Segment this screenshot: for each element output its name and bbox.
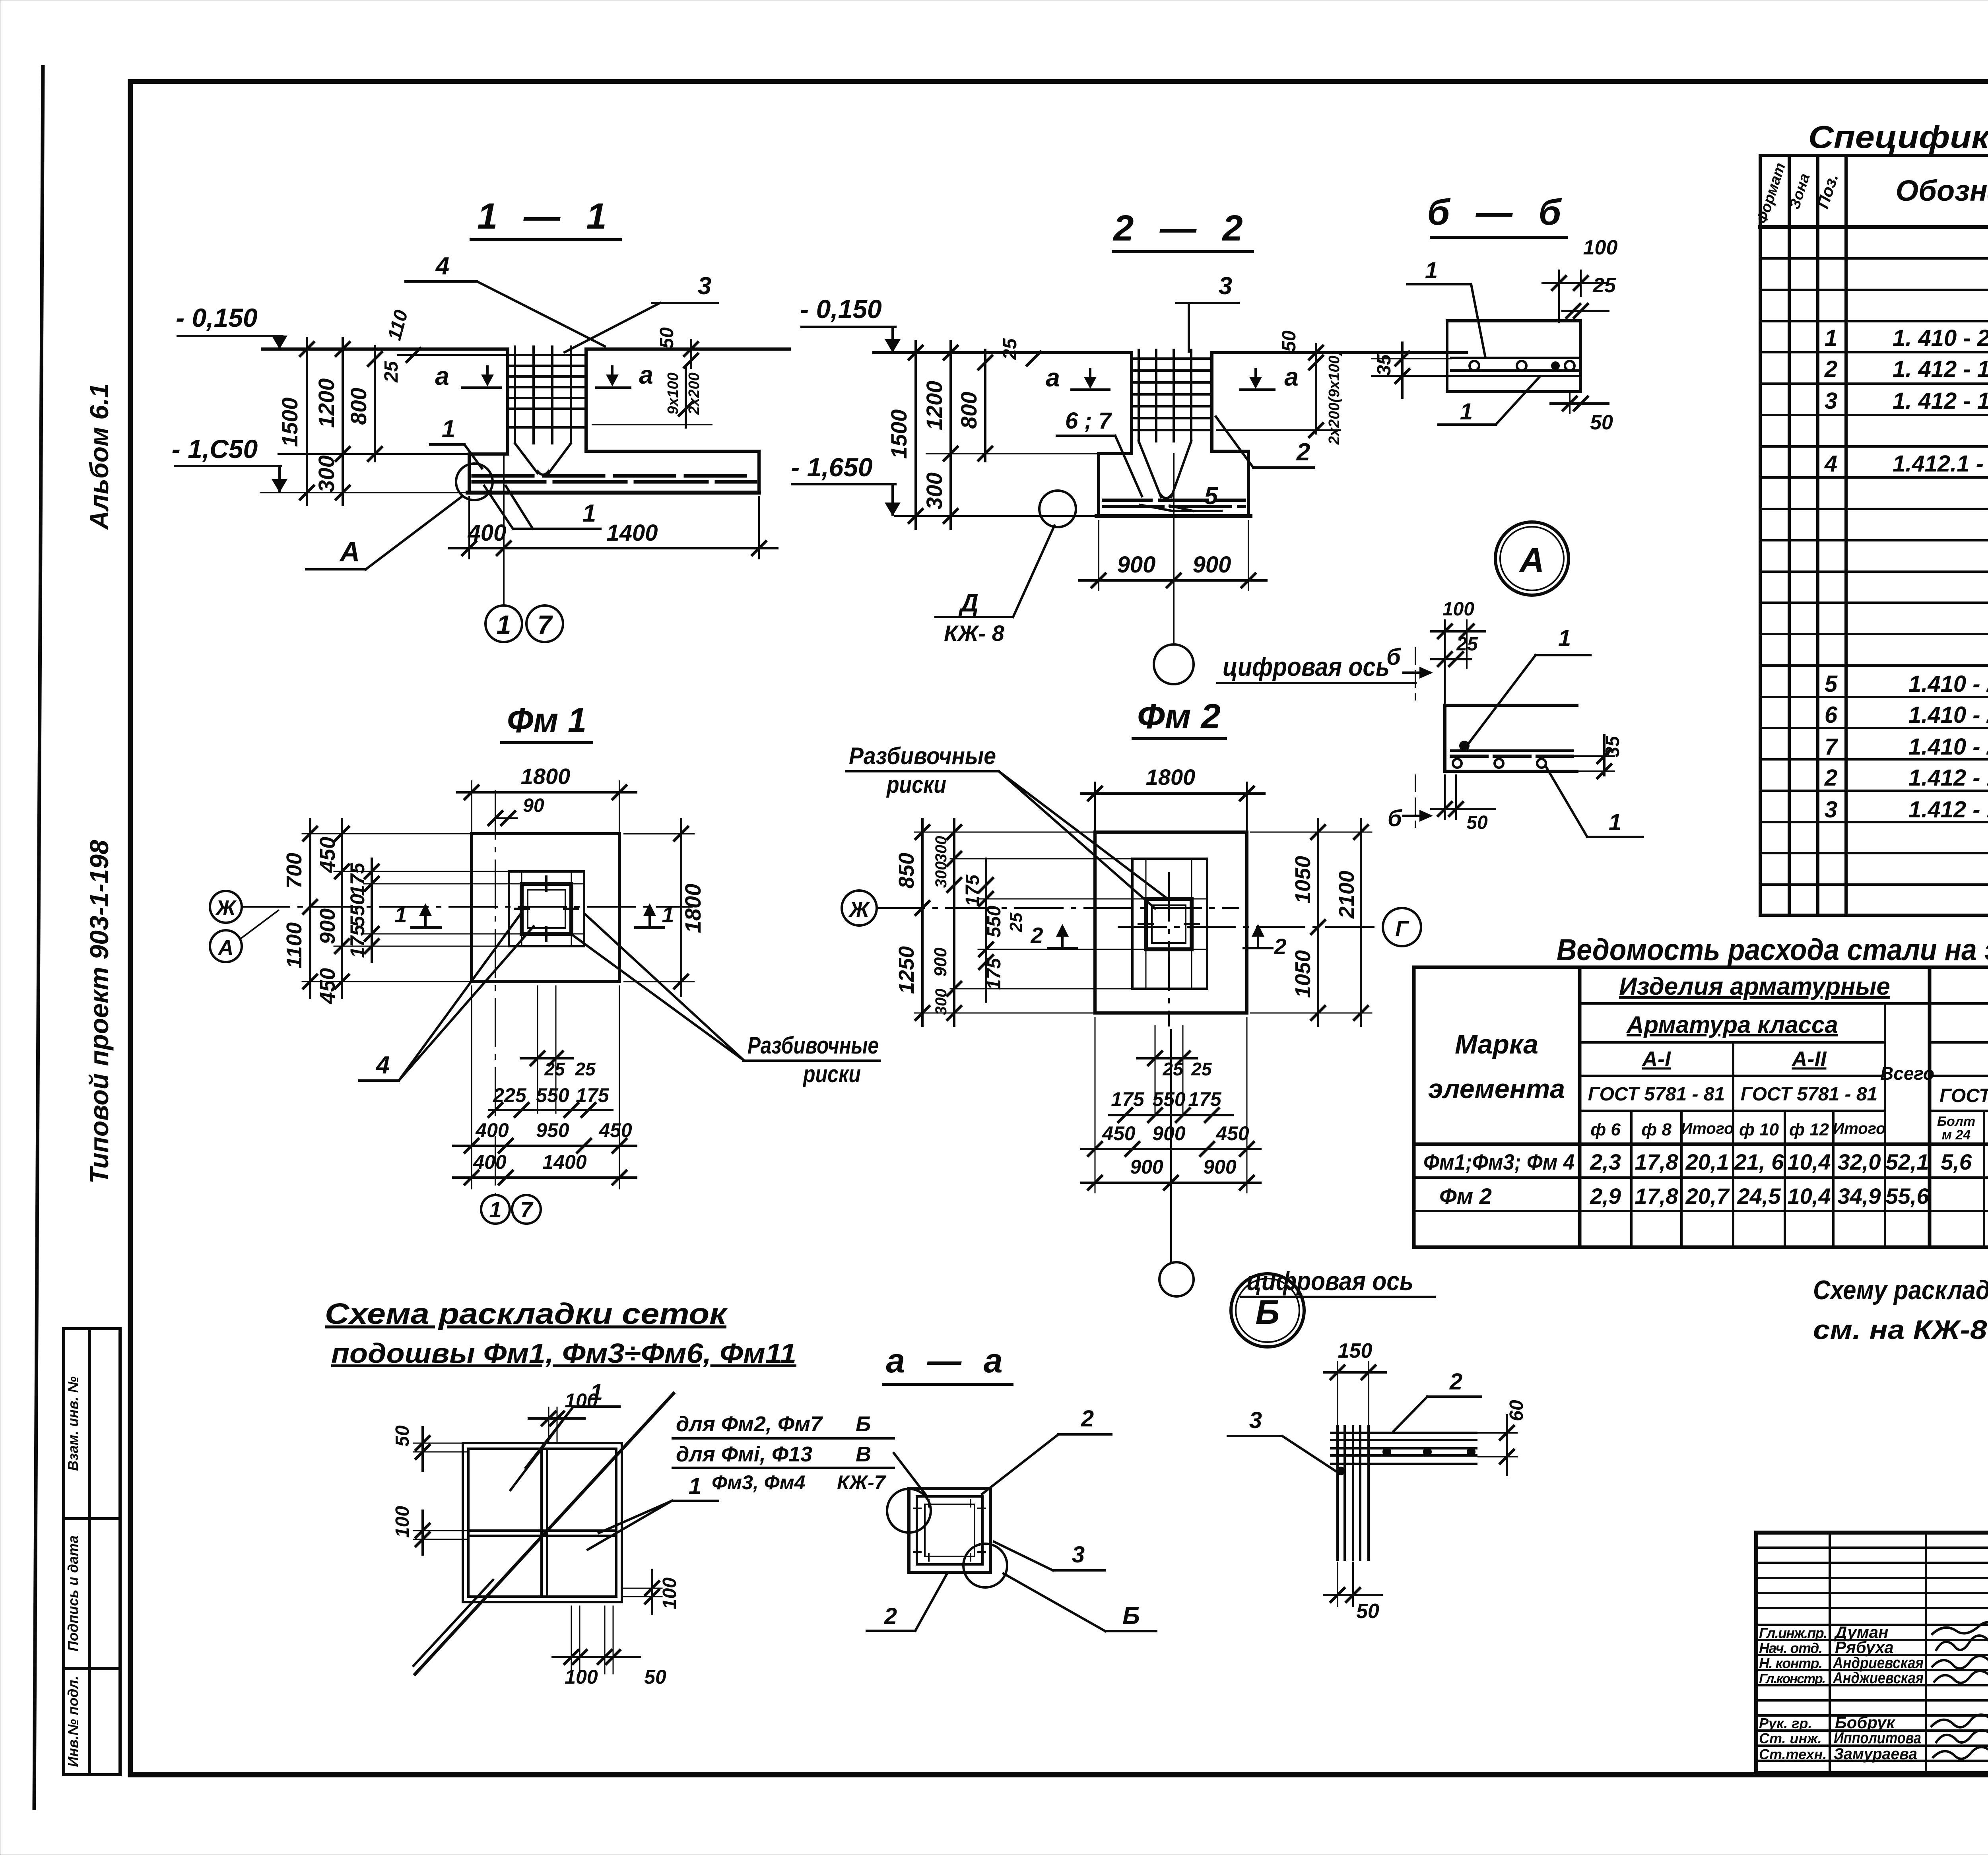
svg-text:Бобрук: Бобрук <box>1835 1713 1895 1732</box>
left dim chain 1200 300 <box>949 341 952 529</box>
svg-text:1 — 1: 1 — 1 <box>477 196 614 237</box>
svg-text:300: 300 <box>314 455 339 492</box>
spec table grid <box>1760 155 1988 915</box>
bottom dim chain 400/1400 <box>453 1176 636 1179</box>
right tie spacing dim <box>685 368 687 427</box>
svg-text:24,5: 24,5 <box>1737 1184 1781 1209</box>
svg-text:175: 175 <box>346 862 369 896</box>
svg-text:1200: 1200 <box>922 381 947 431</box>
svg-text:б: б <box>1386 644 1402 670</box>
svg-text:КЖ- 8: КЖ- 8 <box>944 621 1005 646</box>
svg-text:Б: Б <box>856 1412 871 1436</box>
svg-text:1800: 1800 <box>1146 765 1196 790</box>
detail A cut line b <box>1415 648 1416 700</box>
axis vertical 1/7 <box>495 791 496 1195</box>
footing bottom mesh <box>473 474 755 478</box>
svg-text:1: 1 <box>394 902 407 927</box>
svg-text:1.410 - 2 вып. 1: 1.410 - 2 вып. 1 <box>1908 734 1988 760</box>
bottom extension lines Fm2 <box>1095 1018 1096 1193</box>
svg-text:Б: Б <box>1122 1602 1140 1630</box>
svg-text:цифровая ось: цифровая ось <box>1246 1266 1413 1296</box>
svg-text:ф 12: ф 12 <box>1789 1120 1829 1139</box>
svg-text:50: 50 <box>656 327 678 349</box>
svg-text:Подпись и дата: Подпись и дата <box>65 1535 81 1651</box>
stem side lines across pedestal <box>509 883 584 885</box>
left dim chain 300/300 <box>953 819 955 1026</box>
steel table data row 2 <box>1439 1184 1988 1209</box>
svg-text:1500: 1500 <box>277 398 302 447</box>
svg-text:Типовой проект 903-1-198: Типовой проект 903-1-198 <box>84 840 114 1184</box>
detail A dim 25 <box>1431 658 1471 660</box>
svg-text:Взам. инв. №: Взам. инв. № <box>65 1376 81 1471</box>
svg-text:50: 50 <box>1356 1600 1379 1623</box>
dim 25 25 Fm2 <box>1137 1057 1197 1059</box>
svg-text:ф 8: ф 8 <box>1641 1120 1672 1139</box>
svg-text:Фм1;Фм3; Фм 4: Фм1;Фм3; Фм 4 <box>1423 1149 1574 1174</box>
svg-text:2: 2 <box>1030 923 1043 948</box>
svg-text:для Фм2, Фм7: для Фм2, Фм7 <box>676 1412 823 1436</box>
dim 100 top <box>1543 282 1606 284</box>
slab mesh <box>1451 357 1578 359</box>
svg-text:б — б: б — б <box>1427 192 1569 233</box>
svg-text:300: 300 <box>932 836 950 863</box>
sheet edge line <box>34 67 43 1808</box>
pedestal rect <box>1132 859 1207 989</box>
svg-text:17,8: 17,8 <box>1635 1184 1679 1209</box>
detail circle A on footing <box>456 464 493 500</box>
svg-text:ф 6: ф 6 <box>1590 1120 1621 1139</box>
ground level line <box>874 351 1132 354</box>
a-a corner circles <box>887 1489 931 1533</box>
svg-text:1: 1 <box>689 1473 701 1499</box>
svg-text:2: 2 <box>1274 934 1286 959</box>
svg-text:400: 400 <box>468 520 507 546</box>
svg-text:2,3: 2,3 <box>1590 1149 1621 1174</box>
svg-text:25: 25 <box>1006 912 1026 932</box>
dim 35 left <box>1401 343 1404 398</box>
svg-text:Н. контр.: Н. контр. <box>1759 1655 1823 1671</box>
svg-text:300: 300 <box>932 989 950 1015</box>
title block signatures scribbles <box>1932 1622 1988 1759</box>
svg-text:Схема раскладки сеток: Схема раскладки сеток <box>325 1297 728 1330</box>
DETAIL-A <box>1386 522 1643 837</box>
axis line <box>1173 454 1175 644</box>
svg-text:800: 800 <box>956 392 981 429</box>
svg-text:5,6: 5,6 <box>1941 1149 1972 1174</box>
axis Zh horizontal <box>242 906 692 908</box>
svg-text:90: 90 <box>523 795 544 816</box>
svg-text:1. 410 - 2 вып. 1: 1. 410 - 2 вып. 1 <box>1893 325 1988 351</box>
svg-text:550: 550 <box>346 894 369 927</box>
svg-text:3: 3 <box>1825 797 1837 823</box>
svg-text:Фм 1: Фм 1 <box>507 700 586 740</box>
dim 25 25 <box>521 1057 573 1059</box>
svg-text:А: А <box>1519 541 1544 579</box>
svg-text:550: 550 <box>984 906 1005 937</box>
detail A dim 100 <box>1431 630 1485 633</box>
svg-text:950: 950 <box>536 1119 569 1141</box>
svg-text:3: 3 <box>1249 1407 1262 1433</box>
svg-text:а: а <box>435 362 449 390</box>
svg-text:Г: Г <box>1395 917 1409 941</box>
stem center line vertical <box>1168 873 1170 1026</box>
svg-text:450: 450 <box>1102 1122 1136 1145</box>
a-a nested squares <box>909 1488 990 1572</box>
svg-text:1: 1 <box>1460 399 1473 425</box>
schema dim 50 left <box>421 1427 424 1471</box>
svg-text:2: 2 <box>1824 765 1837 791</box>
svg-text:б: б <box>1388 805 1403 831</box>
DETAIL-B <box>1228 1274 1527 1623</box>
svg-text:225: 225 <box>493 1084 527 1106</box>
schema dim 100 left <box>421 1511 424 1554</box>
detail A dim 50 <box>1431 808 1495 810</box>
svg-text:Альбом 6.1: Альбом 6.1 <box>84 383 114 530</box>
title block outer <box>1756 1533 1988 1773</box>
svg-text:50: 50 <box>1590 411 1613 434</box>
svg-text:Арматура класса: Арматура класса <box>1626 1011 1838 1038</box>
detail A dim 35 <box>1603 735 1606 775</box>
detail A circle <box>1495 522 1569 595</box>
left dim chain 850/1250 <box>921 819 924 1026</box>
svg-text:Гл.инж.пр.: Гл.инж.пр. <box>1759 1625 1827 1641</box>
svg-text:10,4: 10,4 <box>1788 1184 1831 1209</box>
svg-text:А: А <box>217 936 234 960</box>
spec table rows <box>1824 231 1988 916</box>
svg-text:50: 50 <box>1279 330 1300 352</box>
svg-text:- 1,650: - 1,650 <box>791 452 873 482</box>
svg-text:1: 1 <box>1609 809 1621 835</box>
axis circle Zh <box>210 891 242 923</box>
left dim chain 700/1100 <box>309 819 311 998</box>
bottom extension lines <box>471 986 472 1189</box>
svg-text:50: 50 <box>644 1666 666 1688</box>
svg-text:- 1,С50: - 1,С50 <box>172 434 258 464</box>
top dim 1800 Fm2 <box>1081 792 1264 795</box>
svg-text:1.412.1 - 4: 1.412.1 - 4 <box>1893 451 1988 477</box>
stem square with plate <box>522 884 571 934</box>
detail B dim 150 <box>1324 1371 1386 1374</box>
svg-text:300: 300 <box>932 862 950 888</box>
axis circle A <box>210 930 242 962</box>
svg-text:м 24: м 24 <box>1942 1127 1971 1143</box>
svg-text:900: 900 <box>1117 552 1156 578</box>
svg-text:цифровая ось: цифровая ось <box>1223 652 1390 681</box>
right dim 2100 <box>1360 819 1362 1026</box>
footing outer square 1800x1800 <box>472 834 619 982</box>
svg-text:52,1: 52,1 <box>1886 1149 1929 1174</box>
svg-text:5: 5 <box>1204 482 1219 510</box>
slab outline <box>1447 319 1580 322</box>
svg-text:175: 175 <box>984 958 1005 990</box>
mesh inner dividers <box>540 1449 543 1597</box>
svg-text:100: 100 <box>659 1578 680 1609</box>
svg-text:Итого: Итого <box>1833 1120 1885 1137</box>
svg-text:7: 7 <box>1825 734 1839 760</box>
svg-text:1050: 1050 <box>1291 950 1315 998</box>
svg-text:6: 6 <box>1825 702 1838 728</box>
stem square with plate <box>1146 899 1192 949</box>
svg-text:1: 1 <box>442 415 455 443</box>
svg-text:ГОСТ 5781 - 81: ГОСТ 5781 - 81 <box>1741 1084 1877 1105</box>
svg-text:Фм3, Фм4: Фм3, Фм4 <box>712 1471 805 1494</box>
bottom dim chain 225/550/175 <box>489 1109 612 1111</box>
detail A slab outline <box>1445 704 1577 707</box>
svg-text:Ж: Ж <box>215 896 237 920</box>
right tie spacing dim <box>1315 370 1317 433</box>
detail circle D on footing <box>1039 491 1076 527</box>
svg-text:Гл.констр.: Гл.констр. <box>1759 1671 1826 1686</box>
svg-text:1.412 - 1/77 вып. 3: 1.412 - 1/77 вып. 3 <box>1908 765 1988 791</box>
svg-text:7: 7 <box>538 610 553 639</box>
svg-text:для Фмi, Ф13: для Фмi, Ф13 <box>676 1442 812 1466</box>
column stem outline <box>506 349 509 454</box>
svg-text:2,9: 2,9 <box>1590 1184 1621 1209</box>
svg-text:А-II: А-II <box>1791 1047 1827 1071</box>
svg-text:ф 10: ф 10 <box>1739 1120 1779 1139</box>
svg-text:А-I: А-I <box>1641 1047 1671 1071</box>
svg-text:175: 175 <box>962 874 983 906</box>
bottom dim chain 175/550/175 Fm2 <box>1109 1114 1233 1116</box>
riska extension lines bottom <box>537 986 538 1113</box>
svg-text:25: 25 <box>544 1059 565 1079</box>
svg-text:1. 412 - 1/77 вып. 3: 1. 412 - 1/77 вып. 3 <box>1893 388 1988 414</box>
svg-text:900: 900 <box>1130 1156 1163 1178</box>
stem side lines across pedestal <box>1132 898 1207 900</box>
title block signature names <box>1759 1623 1924 1763</box>
svg-text:175: 175 <box>1188 1088 1222 1110</box>
left dim chain 175/550/175 Fm2 <box>985 859 987 1002</box>
corner mesh horizontal bars <box>1331 1433 1476 1464</box>
svg-text:Разбивочные: Разбивочные <box>747 1032 879 1059</box>
svg-text:1.410 - 2 вып. 1: 1.410 - 2 вып. 1 <box>1908 671 1988 697</box>
svg-text:900: 900 <box>1193 552 1231 578</box>
pedestal square 900x900 <box>509 871 584 946</box>
svg-text:1: 1 <box>1425 258 1438 283</box>
svg-text:175: 175 <box>1111 1088 1145 1110</box>
axis circle 1 <box>481 1195 510 1224</box>
steel table grid <box>1414 967 1988 1247</box>
steel table data row 1 <box>1423 1149 1988 1174</box>
title block signature grid <box>1756 1533 1988 1773</box>
axis circle 1 <box>485 605 522 642</box>
svg-text:2х200: 2х200 <box>686 373 703 415</box>
svg-text:КЖ-7: КЖ-7 <box>837 1471 886 1494</box>
right dim 1800 <box>680 819 682 996</box>
svg-text:400: 400 <box>475 1119 509 1141</box>
svg-text:3: 3 <box>1072 1542 1085 1568</box>
svg-text:2: 2 <box>1449 1369 1462 1395</box>
svg-text:1.410 - 2 вып. 1: 1.410 - 2 вып. 1 <box>1908 702 1988 728</box>
riska tick marks Fm2 <box>1139 892 1199 956</box>
schema dim 50 bottom <box>592 1656 640 1658</box>
svg-text:175: 175 <box>346 924 369 958</box>
svg-text:2: 2 <box>1824 356 1837 382</box>
svg-text:700: 700 <box>282 853 306 889</box>
svg-text:450: 450 <box>316 968 340 1004</box>
svg-text:35: 35 <box>1602 735 1623 757</box>
svg-text:1: 1 <box>662 902 674 927</box>
svg-text:Инв.№ подл.: Инв.№ подл. <box>65 1676 81 1767</box>
stem rebar ties <box>510 355 584 427</box>
bottom dim line 900 900 <box>1079 579 1266 582</box>
svg-text:Всего: Всего <box>1880 1063 1934 1084</box>
mesh bar circles <box>1470 361 1479 371</box>
svg-text:Обозначение: Обозначение <box>1896 174 1988 207</box>
left margin stamp table <box>64 1329 120 1775</box>
svg-text:2100: 2100 <box>1335 871 1359 919</box>
svg-text:1. 412 - 1/77 вып. 3: 1. 412 - 1/77 вып. 3 <box>1893 356 1988 382</box>
left dim chain 800 <box>374 346 376 461</box>
detail B circle <box>1231 1274 1304 1347</box>
svg-text:а: а <box>639 361 653 389</box>
svg-text:Рябуха: Рябуха <box>1835 1638 1894 1657</box>
svg-text:Разбивочные: Разбивочные <box>849 743 996 769</box>
svg-text:1800: 1800 <box>680 884 705 933</box>
svg-text:а — а: а — а <box>886 1342 1009 1380</box>
svg-text:2 — 2: 2 — 2 <box>1112 208 1250 248</box>
svg-text:Итого: Итого <box>1681 1120 1734 1137</box>
svg-text:450: 450 <box>316 837 340 873</box>
svg-text:В: В <box>856 1442 871 1466</box>
svg-text:см. на КЖ-8 .: см. на КЖ-8 . <box>1813 1315 1988 1345</box>
svg-text:А: А <box>339 536 360 567</box>
svg-text:150: 150 <box>1338 1339 1373 1362</box>
detail B dim 60 <box>1506 1415 1508 1475</box>
svg-text:2: 2 <box>1081 1406 1094 1432</box>
svg-text:Марка: Марка <box>1455 1029 1538 1059</box>
svg-text:а: а <box>1284 363 1299 391</box>
svg-text:25: 25 <box>1162 1059 1184 1079</box>
dim 25 <box>1563 310 1608 312</box>
dim 50 bottom <box>1551 402 1608 405</box>
a-a bar end ticks <box>914 1500 985 1561</box>
bottom dim chain 400/950/450 <box>453 1145 636 1147</box>
svg-text:175: 175 <box>576 1084 610 1106</box>
svg-text:550: 550 <box>536 1084 569 1106</box>
stem rebar cage bars <box>1139 350 1191 498</box>
svg-text:3: 3 <box>1825 388 1837 414</box>
svg-text:ГОСТ 2590-71 *: ГОСТ 2590-71 * <box>1939 1085 1988 1106</box>
svg-text:20,1: 20,1 <box>1685 1149 1729 1174</box>
axis circle Zh Fm2 <box>842 891 877 926</box>
bottom dim chain 450/900/450 Fm2 <box>1081 1148 1260 1150</box>
svg-text:100: 100 <box>1583 236 1618 259</box>
footing outline <box>469 452 508 456</box>
svg-text:5: 5 <box>1825 671 1838 697</box>
svg-text:100: 100 <box>565 1666 598 1688</box>
footing outer rect 1800x2100 <box>1095 832 1247 1013</box>
stem rebar cage bars <box>515 347 571 475</box>
stem rebar ties <box>1134 359 1209 430</box>
left dim chain 175/550/175 <box>371 859 373 962</box>
svg-text:- 0,150: - 0,150 <box>176 303 258 332</box>
left dim chain 450/900/450 <box>341 819 343 998</box>
svg-text:риски: риски <box>886 771 946 798</box>
column stem outline <box>1130 353 1133 454</box>
svg-text:50: 50 <box>392 1425 413 1447</box>
svg-text:900: 900 <box>1152 1122 1186 1145</box>
bottom dim line 400 1400 <box>449 547 777 549</box>
svg-text:Изделия арматурные: Изделия арматурные <box>1619 973 1890 1000</box>
schema dim 100 top <box>529 1417 584 1420</box>
riska tick marks <box>515 877 578 941</box>
svg-text:1: 1 <box>1825 325 1837 351</box>
svg-text:Ипполитова: Ипполитова <box>1834 1729 1921 1747</box>
svg-text:800: 800 <box>346 388 371 425</box>
axis circle bottom Fm2 <box>1159 1262 1194 1296</box>
left dim chain 1500 <box>306 338 308 505</box>
svg-text:21, 6: 21, 6 <box>1734 1149 1784 1174</box>
svg-text:900: 900 <box>316 908 340 944</box>
axis circle 7 <box>526 605 563 642</box>
svg-text:4: 4 <box>375 1052 390 1079</box>
riska extension lines bottom Fm2 <box>1155 1026 1156 1113</box>
svg-text:1: 1 <box>590 1380 603 1405</box>
bottom dim chain 900/900 Fm2 <box>1081 1182 1260 1184</box>
svg-text:10,4: 10,4 <box>1788 1149 1831 1174</box>
svg-text:Схему раскладки сеток подошвы: Схему раскладки сеток подошвы фундамента… <box>1813 1275 1988 1305</box>
svg-text:1100: 1100 <box>282 922 306 968</box>
svg-text:60: 60 <box>1506 1400 1527 1421</box>
schema dim 100 right <box>651 1570 653 1614</box>
svg-text:2: 2 <box>1296 439 1310 466</box>
left extension lines <box>302 834 522 982</box>
right dim chain 1050/1050 <box>1317 819 1319 1026</box>
svg-text:3: 3 <box>698 272 711 300</box>
svg-text:25: 25 <box>1456 634 1478 655</box>
svg-text:850: 850 <box>895 853 918 889</box>
footing outline <box>1099 452 1132 455</box>
svg-text:300: 300 <box>922 472 947 509</box>
svg-text:Анджиевская: Анджиевская <box>1833 1669 1924 1687</box>
svg-text:25: 25 <box>1191 1059 1212 1079</box>
svg-text:9х100: 9х100 <box>665 373 681 415</box>
svg-text:35: 35 <box>1374 354 1395 376</box>
stem center line horizontal to G axis <box>1118 926 1383 928</box>
axis line <box>503 454 505 605</box>
svg-text:Нач. отд.: Нач. отд. <box>1759 1640 1823 1656</box>
svg-text:Ведомость расхода стали на: Ведомость расхода стали на элемент, кг <box>1557 933 1988 967</box>
left dim chain 1500 <box>914 341 917 529</box>
svg-text:4: 4 <box>1824 451 1837 477</box>
svg-text:1800: 1800 <box>521 764 571 789</box>
svg-text:1400: 1400 <box>606 520 658 546</box>
bar end dots <box>1382 1448 1391 1456</box>
svg-text:32,0: 32,0 <box>1838 1149 1881 1174</box>
svg-text:110: 110 <box>384 308 412 343</box>
svg-text:ГОСТ 5781 - 81: ГОСТ 5781 - 81 <box>1588 1084 1725 1105</box>
svg-text:450: 450 <box>1215 1122 1249 1145</box>
svg-text:6 ; 7: 6 ; 7 <box>1065 408 1112 434</box>
diagonal bar <box>415 1393 674 1674</box>
svg-text:100: 100 <box>1442 599 1474 620</box>
footing bottom mesh <box>1103 499 1244 502</box>
svg-text:50: 50 <box>1466 812 1488 833</box>
svg-text:элемента: элемента <box>1428 1074 1565 1104</box>
svg-text:25: 25 <box>1592 274 1616 297</box>
svg-text:1050: 1050 <box>1291 856 1315 904</box>
svg-text:2: 2 <box>884 1603 897 1629</box>
svg-text:Фм 2: Фм 2 <box>1137 697 1221 736</box>
svg-text:25: 25 <box>1000 338 1021 360</box>
svg-text:Ст. инж.: Ст. инж. <box>1759 1730 1822 1746</box>
left extension lines Fm2 <box>914 832 1146 1013</box>
ground level line <box>262 347 508 351</box>
axis circle <box>1154 644 1194 684</box>
svg-text:1500: 1500 <box>886 409 911 459</box>
svg-text:25: 25 <box>381 361 402 383</box>
